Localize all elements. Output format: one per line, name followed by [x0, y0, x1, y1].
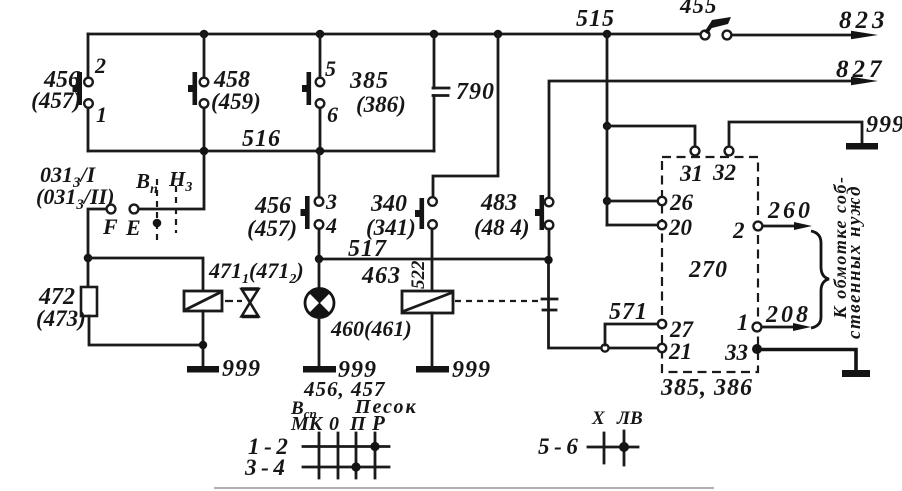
relay K1 471 coil: [184, 291, 222, 311]
wire pin F down to node A: [88, 209, 106, 287]
ground under lamp: [303, 366, 336, 373]
svg-text:4711(4712): 4711(4712): [208, 258, 304, 287]
svg-text:(459): (459): [211, 89, 261, 114]
pin 2: [732, 218, 762, 243]
wire switch 483 bottom down to pin 21 rail: [549, 229, 658, 348]
pin 1: [737, 310, 761, 335]
wire top bus to switch 458 top contact: [203, 34, 206, 77]
table2 grid: [588, 431, 638, 465]
label connector 031-3/I (031-3/II): [36, 162, 114, 213]
svg-text:385, 386: 385, 386: [660, 375, 753, 401]
svg-text:1: 1: [737, 310, 749, 335]
wire bus 517 horizontal: [319, 258, 548, 261]
wire pin E to bus 516: [139, 155, 204, 209]
ground bottom right: [842, 370, 870, 377]
wire relay 522 to ground: [431, 313, 434, 366]
svg-text:26: 26: [669, 190, 694, 215]
junction top bus at connector 790: [430, 30, 439, 39]
svg-text:516: 516: [242, 126, 281, 152]
wire switch 458 bottom contact to bus 516: [203, 108, 206, 151]
svg-text:6: 6: [327, 102, 338, 127]
svg-text:571: 571: [609, 299, 648, 325]
svg-text:5 - 6: 5 - 6: [538, 434, 578, 459]
switch S4 456(457) contacts 3-4: [301, 196, 324, 229]
table2 contact dot: [619, 442, 629, 452]
wire to pin 26: [607, 200, 657, 203]
label 515: [576, 6, 615, 32]
wire switch 385 contact 6 down to bus 516: [319, 108, 322, 151]
svg-text:270: 270: [688, 257, 728, 283]
svg-text:260: 260: [767, 198, 813, 224]
label 827: [836, 56, 886, 83]
wire resistor bottom to ground rail: [89, 316, 203, 345]
junction x607 y126: [603, 122, 611, 130]
connector pin F: [102, 205, 118, 239]
label N3: [168, 167, 192, 195]
table caption 456, 457: [303, 377, 386, 401]
svg-text:(386): (386): [356, 92, 406, 117]
pin 20: [658, 215, 693, 240]
label 260: [767, 198, 813, 224]
wire lamp to ground: [318, 317, 321, 366]
wire to pin 31: [607, 126, 695, 146]
wire bus 516 horizontal: [88, 150, 434, 153]
pin 4 label: [325, 213, 337, 238]
ground under relay 471: [187, 366, 219, 373]
table caption Vsp Pesok: [290, 396, 418, 421]
wire main vertical x607: [606, 34, 609, 225]
note text to windings (vertical): [830, 176, 865, 339]
svg-text:208: 208: [765, 302, 811, 328]
svg-text:515: 515: [576, 6, 615, 32]
label 208: [765, 302, 811, 328]
svg-text:ственных нужд: ственных нужд: [844, 185, 865, 339]
svg-text:522: 522: [408, 260, 429, 289]
svg-text:(48 4): (48 4): [474, 215, 530, 240]
ground under relay 522: [416, 366, 449, 373]
svg-text:3: 3: [325, 189, 337, 214]
table contact dot row1: [370, 442, 379, 451]
wire arrow 260: [763, 222, 812, 230]
connector 790 upper lead: [433, 34, 436, 88]
pin 32: [712, 147, 736, 185]
tick marks on wire at mech link end: [542, 299, 557, 310]
label 455: [679, 0, 718, 18]
label 460(461): [330, 316, 412, 341]
pneumatic valve symbol: [241, 289, 259, 317]
junction 517/483: [544, 256, 552, 264]
junction top bus at x498: [494, 30, 503, 39]
wire switch 340 contact down through 517 into relay 522: [431, 229, 434, 291]
svg-text:463: 463: [361, 263, 401, 289]
label 999 relay 522: [452, 357, 491, 383]
svg-text:(457): (457): [247, 216, 297, 241]
pin 5 label: [325, 56, 336, 81]
wire top bus (net 515) from left branch to switch 455: [88, 33, 702, 36]
relay K2 522 coil: [402, 291, 453, 313]
table2 caption X LV: [591, 408, 643, 429]
pin 33 junction dot: [724, 340, 762, 365]
svg-text:483: 483: [480, 190, 517, 216]
svg-text:5: 5: [325, 56, 336, 81]
table rows labels 1-2 3-4: [244, 434, 288, 480]
resistor 472(473): [81, 287, 97, 316]
wire from contact 1 down to bus 516: [87, 108, 90, 151]
pin 27: [658, 317, 695, 342]
switch S2 458(459): [188, 72, 208, 108]
connector pin E: [125, 205, 141, 240]
label 458 (459): [211, 67, 261, 114]
svg-text:20: 20: [668, 215, 693, 240]
svg-text:(473): (473): [36, 306, 86, 331]
wire contact 4 to bus 517: [318, 229, 321, 259]
label 999 left: [222, 356, 261, 382]
label 522 rotated: [408, 260, 429, 289]
junction bus 516 at x320: [316, 147, 325, 156]
svg-text:E: E: [125, 215, 141, 240]
svg-text:(457): (457): [31, 88, 81, 113]
svg-text:2: 2: [94, 53, 106, 78]
label 340 (341): [366, 191, 416, 240]
svg-text:X: X: [591, 408, 606, 429]
wire bus 516 to contact 3: [318, 151, 321, 197]
wire from top bus down and left to switch 340: [433, 34, 498, 197]
scan artifact line bottom: [214, 487, 714, 488]
table2 row label 5-6: [538, 434, 578, 459]
junction top bus at x607: [603, 30, 612, 39]
junction bus 517 at lamp branch: [315, 255, 323, 263]
pin 31: [679, 147, 703, 186]
dashed mechanical link relay 522 to capacitor node: [455, 300, 541, 302]
svg-text:460(461): 460(461): [330, 316, 412, 341]
svg-text:517: 517: [348, 236, 387, 262]
junction node A: [84, 254, 93, 263]
svg-text:21: 21: [668, 339, 692, 364]
ground top right: [846, 143, 878, 150]
wire to arrow 823: [732, 31, 878, 39]
switch S6 483(484): [535, 195, 553, 230]
wire top bus to switch 385 contact 5: [319, 34, 322, 77]
label 472 (473): [36, 284, 86, 331]
pin 2 label: [94, 53, 106, 78]
svg-text:F: F: [102, 214, 118, 239]
svg-text:999: 999: [452, 357, 491, 383]
svg-text:П: П: [349, 413, 367, 435]
svg-text:340: 340: [370, 191, 407, 217]
junction x607 y201: [603, 197, 611, 205]
label 456 (457): [31, 67, 81, 113]
table contact dot row2: [351, 462, 360, 471]
wire pin 33 to ground bottom right: [757, 350, 856, 372]
dot on Vp dashed line: [153, 219, 162, 228]
wire 571 stub: [605, 324, 657, 345]
svg-text:33: 33: [724, 340, 748, 365]
svg-text:823: 823: [839, 7, 889, 34]
relay block 270 dashed box: [662, 157, 758, 372]
svg-text:ЛВ: ЛВ: [616, 408, 643, 429]
wire net 827 from switch 483 up and right to arrow: [549, 77, 878, 198]
pin 1 label: [96, 102, 107, 127]
lamp 460(461): [305, 288, 334, 318]
open circle junction on 21 rail: [601, 344, 608, 351]
svg-text:2: 2: [732, 218, 745, 243]
wire pin 32 to ground top right: [729, 122, 862, 146]
dashed mechanical link relay 471 to valve: [225, 300, 242, 302]
wire down to lamp: [318, 259, 321, 289]
label Vp: [135, 169, 158, 197]
wire arrow 208: [762, 323, 811, 331]
svg-text:999: 999: [222, 356, 261, 382]
switch S3 385(386) contacts 5-6: [302, 72, 324, 108]
connector 790 lower lead to bus 516: [433, 96, 436, 152]
table caption MK 0 P R: [290, 411, 385, 435]
brace for nets 260/208: [811, 231, 829, 328]
svg-text:Р: Р: [371, 411, 385, 435]
label 385, 386 under box: [660, 375, 753, 401]
wire to pin 20: [607, 224, 657, 227]
junction top bus at switch 385: [316, 30, 325, 39]
pin 21: [658, 339, 692, 364]
label 463: [361, 263, 401, 289]
dashed line under N3: [175, 186, 177, 233]
pin 3 label: [325, 189, 337, 214]
switch S5 340(341): [415, 197, 437, 229]
label 483 (484): [474, 190, 530, 240]
label 270: [688, 257, 728, 283]
label 999 top right: [866, 112, 902, 138]
svg-text:385: 385: [349, 68, 389, 94]
junction bus 516 at x204: [200, 147, 209, 156]
switch 455 contacts: [701, 31, 732, 40]
connector 790 contact bars: [433, 88, 449, 96]
svg-text:4: 4: [325, 213, 337, 238]
label 999 lamp: [338, 357, 377, 383]
svg-text:3 - 4: 3 - 4: [244, 455, 285, 480]
svg-text:455: 455: [679, 0, 718, 18]
svg-text:790: 790: [456, 79, 495, 105]
pin 26: [658, 190, 694, 215]
dashed line under Vp: [156, 179, 158, 240]
svg-text:31: 31: [679, 161, 703, 186]
pin 6 label: [327, 102, 338, 127]
junction relay471/resistor rail: [199, 341, 207, 349]
label 385 (386): [349, 68, 406, 117]
label 790: [456, 79, 495, 105]
label 571: [609, 299, 648, 325]
label 516: [242, 126, 281, 152]
switch S1 456(457) contacts 1-2: [73, 72, 93, 108]
svg-text:999: 999: [866, 112, 902, 138]
svg-text:827: 827: [836, 56, 886, 83]
junction top bus at switch 458: [200, 30, 209, 39]
label 471-1(471-2): [208, 258, 304, 287]
wire relay 471 bottom to ground: [202, 311, 205, 366]
table grid lines: [303, 433, 389, 478]
wire node A to relay 471: [88, 258, 203, 291]
svg-text:32: 32: [712, 160, 736, 185]
wire left leg down to switch 456 contact 2: [87, 34, 90, 77]
label 517: [348, 236, 387, 262]
switch 455 blade: [706, 17, 731, 33]
label 823: [839, 7, 889, 34]
svg-text:1: 1: [96, 102, 107, 127]
label 456 (457) second: [247, 193, 297, 241]
